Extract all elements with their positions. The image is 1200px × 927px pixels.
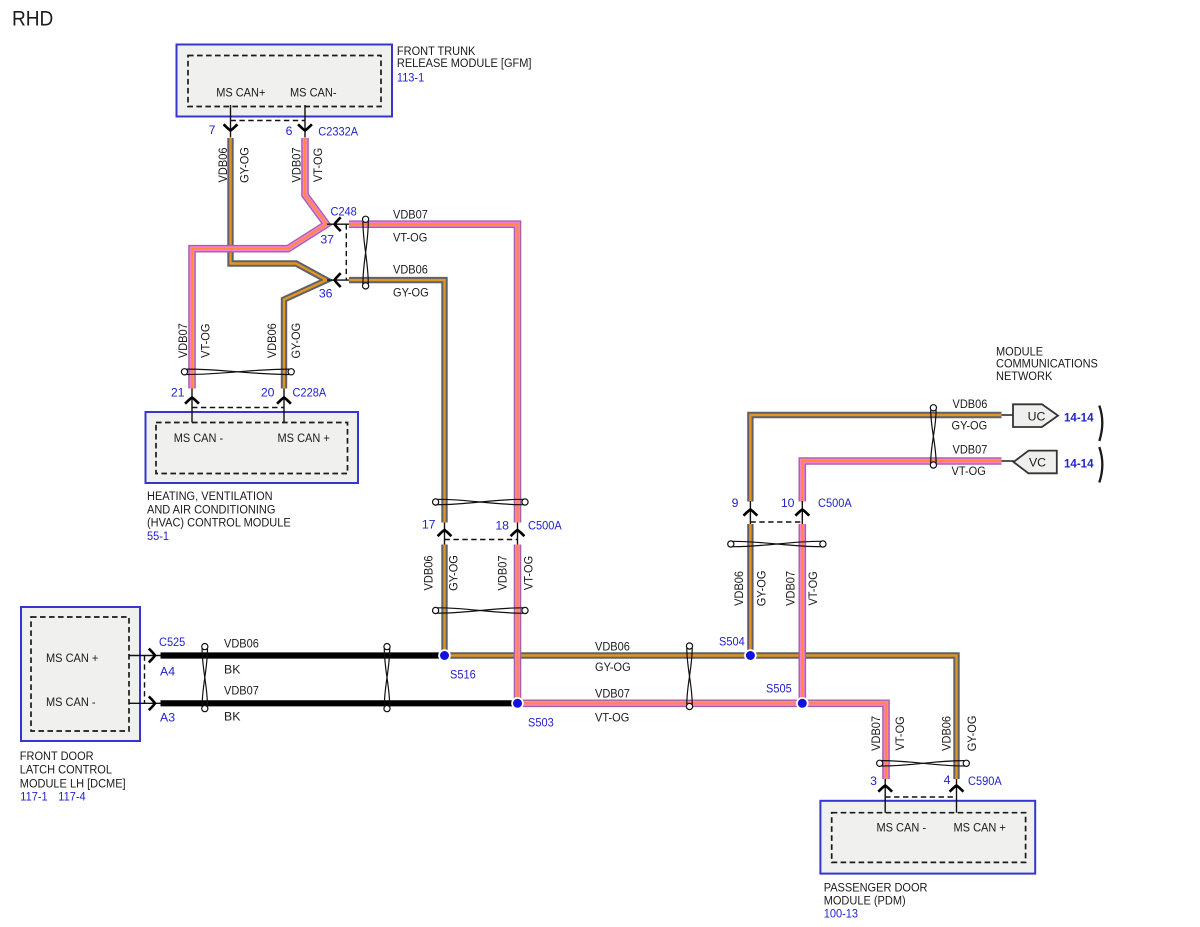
svg-text:10: 10	[781, 496, 795, 510]
svg-text:VDB06: VDB06	[224, 637, 259, 651]
svg-text:C500A: C500A	[818, 496, 852, 510]
connector C500A-left pin 17 arrow	[438, 530, 452, 536]
connector VC symbol	[1014, 451, 1057, 474]
svg-text:VDB06: VDB06	[216, 147, 230, 182]
junction C248 pin 37 arrow	[335, 217, 341, 231]
twisted pair symbol below C500A left	[433, 607, 529, 613]
network brace	[1099, 406, 1102, 483]
connector C500A-left pin 17 shaft	[444, 523, 446, 545]
svg-text:S505: S505	[766, 682, 792, 696]
connector C500A-right pin 10 arrow	[795, 510, 809, 516]
svg-text:MS CAN-: MS CAN-	[290, 85, 337, 99]
svg-text:C590A: C590A	[968, 774, 1002, 788]
svg-text:VDB07: VDB07	[869, 716, 883, 751]
svg-text:VT-OG: VT-OG	[893, 716, 907, 750]
twisted pair symbol above C590A	[877, 760, 970, 766]
svg-text:VT-OG: VT-OG	[595, 711, 629, 725]
svg-text:NETWORK: NETWORK	[996, 369, 1053, 383]
twisted pair symbol on BK pair mid	[384, 644, 390, 712]
svg-text:S504: S504	[719, 635, 745, 649]
svg-text:GY-OG: GY-OG	[755, 571, 769, 607]
wire VDB06 GY-OG from C500A pin 17 to splice S516	[441, 545, 447, 656]
svg-text:VDB07: VDB07	[496, 555, 510, 590]
svg-text:VT-OG: VT-OG	[311, 148, 325, 182]
svg-text:VDB06: VDB06	[953, 397, 988, 411]
module U1 FRONT TRUNK RELEASE MODULE [GFM] box	[177, 45, 393, 117]
wire VDB07 BK from DCME pin A3 to splice S503	[161, 700, 518, 706]
connector C525 dashed link	[144, 656, 146, 704]
svg-text:UC: UC	[1028, 409, 1046, 423]
svg-text:VT-OG: VT-OG	[806, 571, 820, 605]
wire VDB07 VT-OG from C500A pin 18 to splice S503	[514, 545, 522, 704]
splice S504	[745, 650, 756, 661]
module U3 FRONT DOOR LATCH CONTROL MODULE box	[21, 607, 140, 741]
svg-text:VDB06: VDB06	[595, 640, 630, 654]
svg-text:GY-OG: GY-OG	[393, 286, 429, 300]
svg-text:17: 17	[422, 518, 436, 532]
connector C2332A pin 7 arrow	[224, 124, 238, 130]
svg-text:A3: A3	[160, 711, 175, 725]
wire VDB06 GY-OG from splice S504 up to UC connector	[750, 415, 1001, 656]
junction C248 pin 37 shaft	[327, 223, 349, 225]
connector C525 pin A3 arrow	[149, 696, 155, 710]
connector C525 pin A3 shaft	[129, 702, 161, 704]
connector C500A-left pin 18 shaft	[517, 523, 519, 545]
svg-text:S503: S503	[528, 716, 554, 730]
svg-text:C228A: C228A	[293, 386, 327, 400]
connector C525 pin A4 shaft	[129, 655, 161, 657]
svg-text:GY-OG: GY-OG	[965, 716, 979, 752]
svg-text:37: 37	[320, 233, 334, 247]
connector C590A pin 3 shaft	[884, 779, 886, 813]
svg-text:MS CAN+: MS CAN+	[216, 85, 265, 99]
wire VDB06 GY-OG from GFM pin 7 through junction 36 to HVAC pin 20	[231, 138, 327, 389]
svg-text:C525: C525	[159, 635, 185, 649]
svg-text:113-1: 113-1	[397, 71, 424, 85]
svg-text:4: 4	[944, 773, 951, 787]
twisted pair symbol above C500A left	[433, 499, 529, 505]
connector C590A dashed link	[885, 796, 956, 798]
svg-text:GY-OG: GY-OG	[952, 419, 988, 433]
svg-text:VDB07: VDB07	[224, 684, 259, 698]
wire VDB06 GY-OG from junction 36 to C500A pin 17	[349, 280, 445, 522]
connector C500A-right pin 9 shaft	[749, 501, 751, 524]
svg-text:14-14: 14-14	[1064, 457, 1094, 471]
connector C228A pin 20 shaft	[283, 389, 285, 423]
svg-text:VT-OG: VT-OG	[393, 231, 427, 245]
svg-text:A4: A4	[160, 665, 175, 679]
svg-text:S516: S516	[450, 668, 476, 682]
svg-text:HEATING, VENTILATION: HEATING, VENTILATION	[147, 489, 273, 503]
svg-text:VDB06: VDB06	[393, 263, 428, 277]
svg-text:117-4: 117-4	[58, 789, 85, 803]
svg-text:117-1: 117-1	[20, 789, 47, 803]
svg-text:GY-OG: GY-OG	[447, 555, 461, 591]
connector C590A pin 4 shaft	[956, 779, 958, 813]
svg-text:6: 6	[286, 124, 293, 138]
module U2 HVAC CONTROL MODULE box	[146, 412, 359, 483]
svg-text:RHD: RHD	[12, 7, 53, 31]
twisted pair symbol on BK pair near C525	[202, 644, 208, 712]
connector C525 pin A4 arrow	[149, 649, 155, 663]
connector C590A pin 4 arrow	[950, 786, 964, 792]
svg-text:LATCH CONTROL: LATCH CONTROL	[20, 763, 112, 777]
svg-text:MODULE LH [DCME]: MODULE LH [DCME]	[20, 776, 126, 790]
svg-text:VT-OG: VT-OG	[952, 464, 986, 478]
twisted pair symbol on mid horizontal pair	[686, 643, 692, 710]
svg-text:9: 9	[732, 496, 739, 510]
wire VDB07 VT-OG from splice S503 through S505 to C590A pin 3	[518, 703, 887, 779]
svg-text:VT-OG: VT-OG	[199, 324, 213, 358]
svg-text:VDB07: VDB07	[953, 443, 988, 457]
connector C228A pin 21 arrow	[185, 398, 199, 404]
junction C248 pin 36 arrow	[335, 273, 341, 287]
svg-text:3: 3	[870, 774, 877, 788]
svg-text:20: 20	[261, 386, 275, 400]
connector UC shaft	[1002, 414, 1014, 416]
connector C590A pin 3 arrow	[878, 786, 892, 792]
connector C500A-right pin 9 arrow	[744, 510, 758, 516]
svg-text:MODULE (PDM): MODULE (PDM)	[824, 893, 906, 907]
connector C500A-left pin 18 arrow	[511, 530, 525, 536]
wire VDB07 VT-OG from GFM pin 6 through junction 37 to HVAC pin 21	[192, 138, 327, 389]
svg-text:VDB07: VDB07	[595, 687, 630, 701]
svg-text:21: 21	[171, 386, 185, 400]
svg-text:BK: BK	[224, 662, 241, 676]
svg-text:C248: C248	[331, 205, 357, 219]
connector UC symbol	[1013, 404, 1058, 427]
svg-text:18: 18	[495, 518, 509, 532]
svg-text:VT-OG: VT-OG	[522, 556, 536, 590]
wire VDB07 VT-OG from splice S505 up to VC connector	[802, 461, 1001, 703]
splice S503	[512, 698, 523, 709]
svg-text:MS CAN +: MS CAN +	[954, 821, 1006, 835]
svg-text:C500A: C500A	[528, 518, 562, 532]
svg-text:AND AIR CONDITIONING: AND AIR CONDITIONING	[147, 502, 275, 516]
splice S516	[439, 650, 450, 661]
connector C228A pin 20 arrow	[277, 398, 291, 404]
svg-text:RELEASE MODULE [GFM]: RELEASE MODULE [GFM]	[397, 56, 532, 70]
svg-text:7: 7	[209, 123, 216, 137]
wire VDB06 GY-OG from splice S516 through S504 to C590A pin 4	[445, 656, 957, 780]
wire VDB06 BK from DCME pin A4 to splice S516	[161, 652, 445, 658]
svg-text:GY-OG: GY-OG	[289, 323, 303, 359]
svg-text:14-14: 14-14	[1064, 411, 1094, 425]
connector C228A pin 21 shaft	[191, 389, 193, 423]
module U4 PASSENGER DOOR MODULE box	[820, 801, 1035, 874]
junction C248 dashed link	[345, 224, 347, 280]
wire VDB07 VT-OG from junction 37 to C500A pin 18	[349, 224, 518, 522]
connector C2332A dashed link	[231, 120, 306, 122]
svg-text:VDB06: VDB06	[732, 571, 746, 606]
svg-text:VDB06: VDB06	[422, 555, 436, 590]
twisted pair symbol below C500A right	[728, 541, 826, 547]
svg-text:C2332A: C2332A	[318, 125, 359, 139]
svg-text:MS CAN +: MS CAN +	[278, 431, 330, 445]
svg-text:BK: BK	[224, 710, 241, 724]
svg-text:MS CAN -: MS CAN -	[46, 695, 96, 709]
splice S505	[797, 698, 808, 709]
connector C500A-right dashed link	[750, 521, 802, 523]
svg-text:VDB06: VDB06	[265, 323, 279, 358]
connector C228A dashed link	[192, 407, 284, 409]
svg-text:VDB07: VDB07	[176, 323, 190, 358]
svg-text:GY-OG: GY-OG	[238, 147, 252, 183]
svg-text:VDB06: VDB06	[940, 716, 954, 751]
svg-text:VDB07: VDB07	[289, 147, 303, 182]
svg-text:55-1: 55-1	[147, 529, 169, 543]
svg-text:GY-OG: GY-OG	[595, 660, 631, 674]
svg-text:36: 36	[319, 287, 333, 301]
svg-text:FRONT DOOR: FRONT DOOR	[20, 749, 94, 763]
twisted pair symbol at junction C248	[363, 216, 369, 289]
svg-text:VDB07: VDB07	[784, 571, 798, 606]
svg-text:VC: VC	[1029, 456, 1046, 470]
junction C248 pin 36 shaft	[327, 279, 349, 281]
svg-text:PASSENGER DOOR: PASSENGER DOOR	[824, 880, 928, 894]
svg-text:MS CAN -: MS CAN -	[877, 821, 927, 835]
connector VC shaft	[1002, 460, 1015, 462]
connector C2332A pin 6 shaft	[304, 105, 306, 138]
connector C2332A pin 7 shaft	[230, 105, 232, 138]
connector C2332A pin 6 arrow	[298, 124, 312, 130]
connector C500A-left dashed link	[445, 539, 518, 541]
svg-text:100-13: 100-13	[824, 907, 858, 921]
connector C500A-right pin 10 shaft	[801, 501, 803, 524]
svg-text:(HVAC) CONTROL MODULE: (HVAC) CONTROL MODULE	[147, 516, 291, 530]
svg-text:MS CAN +: MS CAN +	[46, 651, 98, 665]
svg-text:MS CAN -: MS CAN -	[174, 431, 224, 445]
twisted pair symbol on network pair	[930, 405, 936, 468]
svg-text:VDB07: VDB07	[393, 207, 428, 221]
twisted pair symbol above C228A	[181, 369, 294, 375]
